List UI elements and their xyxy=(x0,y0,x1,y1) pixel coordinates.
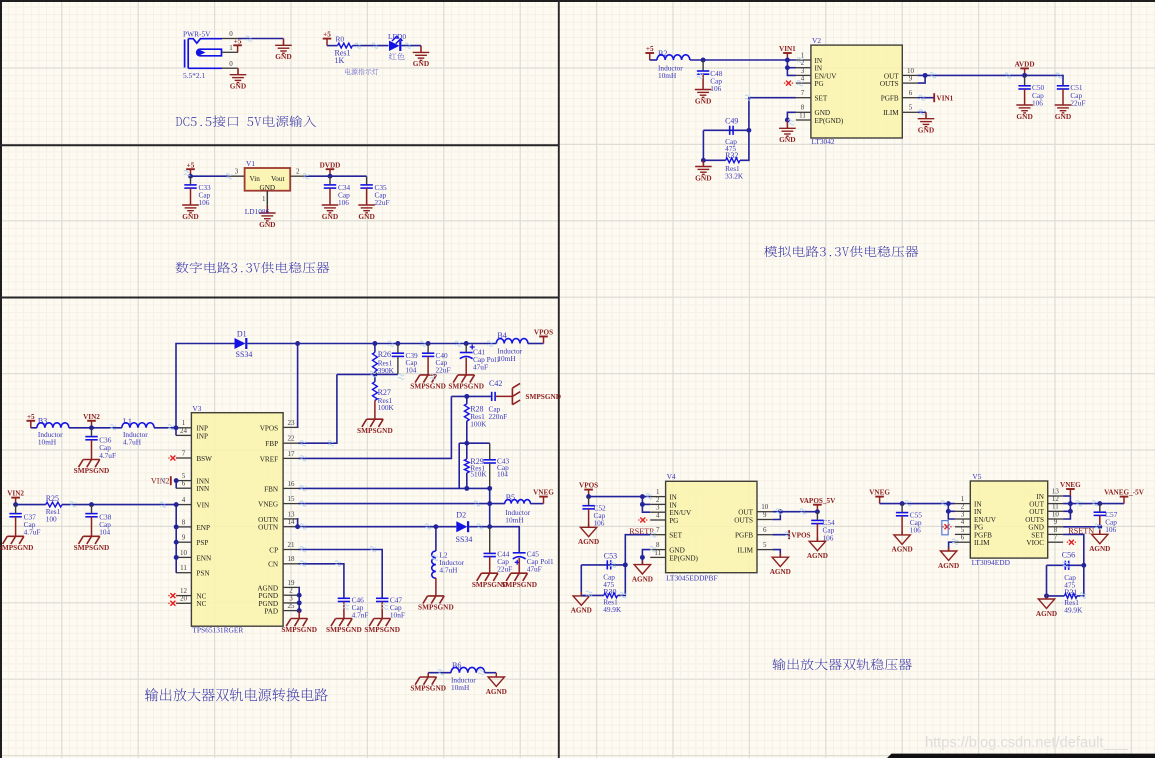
ground GND (R32) xyxy=(695,160,712,174)
svg-text:10mH: 10mH xyxy=(451,683,470,692)
junction VAPOS/C54 xyxy=(815,509,820,514)
svg-text:AGND: AGND xyxy=(770,568,791,576)
capacitor C57 xyxy=(1094,512,1106,515)
power port +5 (connector) xyxy=(233,45,242,52)
label 电源指示灯 xyxy=(345,68,378,75)
wire C53 row xyxy=(581,564,625,566)
pin 0 of PWR-5V (top) xyxy=(222,38,238,40)
junction OUTS riser xyxy=(923,73,928,78)
compile squiggle xyxy=(335,561,341,566)
svg-text:SMPSGND: SMPSGND xyxy=(326,625,362,634)
svg-text:LT3042: LT3042 xyxy=(812,137,835,146)
compile squiggle xyxy=(168,425,174,430)
compile squiggle xyxy=(303,174,309,179)
junction VIN2/C36 xyxy=(89,425,94,430)
junction V4 EP xyxy=(640,555,645,560)
capacitor C44 xyxy=(484,553,496,556)
capacitor C48 labels xyxy=(710,69,723,93)
svg-text:47uF: 47uF xyxy=(527,565,542,574)
svg-text:VIN2: VIN2 xyxy=(151,477,170,486)
svg-text:10: 10 xyxy=(180,549,188,557)
svg-text:GND: GND xyxy=(322,212,338,221)
pin 8 of V4 (GND) xyxy=(650,549,665,551)
compile squiggle xyxy=(930,73,936,78)
wire V5 pins 13-10 riser xyxy=(1063,496,1070,519)
svg-text:104: 104 xyxy=(406,366,417,375)
inductor B4 xyxy=(496,339,528,344)
compile squiggle xyxy=(398,374,404,379)
stem C45 to ground xyxy=(518,558,520,573)
compile squiggle xyxy=(70,502,76,507)
svg-text:6: 6 xyxy=(909,89,913,97)
resistor R25 labels xyxy=(46,507,61,524)
capacitor C45 xyxy=(513,553,526,559)
wire R28/C42 top rail xyxy=(451,395,491,397)
svg-text:SS34: SS34 xyxy=(236,350,253,359)
stem C40 to ground xyxy=(427,356,429,375)
svg-text:220nF: 220nF xyxy=(489,412,508,421)
junction R29 bottom xyxy=(464,486,469,491)
wire +5 to B2 xyxy=(650,59,657,61)
capacitor C52 xyxy=(582,506,594,509)
wire OUTS riser V4 xyxy=(772,512,780,520)
wire CN to C46 xyxy=(299,564,344,598)
ground AGND (C55) xyxy=(894,531,910,544)
pin 1 of V1 (GND) xyxy=(266,191,268,207)
no-connect mark NC20 xyxy=(170,601,175,606)
svg-text:47uF: 47uF xyxy=(473,363,488,372)
pin 11 of V3 (PSN) xyxy=(176,572,192,574)
svg-text:4: 4 xyxy=(182,496,186,504)
svg-text:FBN: FBN xyxy=(264,485,279,493)
power port VIN2 (VIN row) xyxy=(11,498,20,505)
junction ENP xyxy=(174,524,179,529)
pin 5 of V5 (PGFB) xyxy=(955,533,970,535)
compile squiggle xyxy=(382,604,388,609)
svg-text:AGND: AGND xyxy=(1089,545,1110,553)
svg-text:+5: +5 xyxy=(323,31,331,39)
wire to R30 xyxy=(581,594,604,596)
wire ILIM to AGND V5 xyxy=(949,542,955,551)
svg-text:EN/UV: EN/UV xyxy=(669,509,692,517)
wire INN5-INN6 riser xyxy=(175,481,177,489)
svg-text:SMPSGND: SMPSGND xyxy=(418,603,454,612)
svg-text:7: 7 xyxy=(801,89,805,97)
ground GND (LED) xyxy=(413,46,430,61)
inductor L1 labels xyxy=(123,430,148,447)
compile squiggle xyxy=(300,524,306,529)
wire INP to D1 anode xyxy=(176,344,235,428)
svg-text:C42: C42 xyxy=(489,379,502,388)
pin 1 of V3 (INP) xyxy=(176,427,192,429)
wire ILIM to AGND V4 xyxy=(772,550,780,558)
capacitor C37 labels xyxy=(24,512,41,536)
compile squiggle xyxy=(300,456,306,461)
svg-text:49.9K: 49.9K xyxy=(603,605,622,614)
ground AGND (V4 EP) xyxy=(634,561,650,574)
ground GND (C34) xyxy=(322,205,339,213)
svg-text:SMPSGND: SMPSGND xyxy=(281,625,317,634)
wire VREF riser xyxy=(299,396,452,458)
wire mid rail xyxy=(459,442,490,444)
resistor R28 xyxy=(464,404,469,421)
resistor R30 labels xyxy=(603,598,622,614)
svg-text:OUTN: OUTN xyxy=(258,524,279,532)
ground GND (C33) xyxy=(182,205,199,213)
capacitor C39 labels xyxy=(406,351,419,375)
resistor R0 xyxy=(338,43,353,48)
svg-text:VREF: VREF xyxy=(260,455,278,463)
ground AGND (V5 ILIM) xyxy=(940,547,956,560)
wire D2 to C45 xyxy=(469,527,520,553)
ground AGND (C56/R31) xyxy=(1038,595,1054,608)
svg-text:SMPSGND: SMPSGND xyxy=(501,580,537,589)
svg-text:23: 23 xyxy=(288,419,296,427)
junction C39 top xyxy=(395,341,400,346)
error box V5 PG/PGFB xyxy=(942,521,948,535)
stem C57 to ground xyxy=(1099,515,1101,534)
compile squiggle xyxy=(650,547,656,552)
wire C49 row xyxy=(703,129,749,131)
compile squiggle xyxy=(1063,562,1069,567)
pin 7 of V2 (SET) xyxy=(796,97,811,99)
wire ILIM to GND xyxy=(918,111,926,113)
svg-text:1: 1 xyxy=(656,488,660,496)
svg-text:3: 3 xyxy=(961,510,965,518)
svg-text:106: 106 xyxy=(1105,525,1116,534)
capacitor C38 xyxy=(85,514,97,517)
svg-text:GND: GND xyxy=(669,547,685,555)
svg-text:106: 106 xyxy=(338,198,349,207)
wire C56 left riser xyxy=(1046,565,1048,596)
capacitor C33 labels xyxy=(199,183,212,207)
junction SET/C49/R32 xyxy=(746,128,751,133)
power port +5 (V2 input) xyxy=(645,53,654,60)
svg-text:PSN: PSN xyxy=(196,570,210,578)
ground GND (bottom pin) xyxy=(230,68,247,82)
svg-text:V5: V5 xyxy=(972,472,981,481)
svg-text:2: 2 xyxy=(296,168,300,176)
capacitor C48 xyxy=(697,71,709,74)
svg-text:16: 16 xyxy=(288,480,296,488)
power port +5 (V1 input) xyxy=(186,169,195,176)
ground SMPSGND (V3 PGND) xyxy=(286,619,307,627)
svg-text:2: 2 xyxy=(656,496,660,504)
pin 3 of V3 (PGND) xyxy=(283,602,298,604)
svg-text:10mH: 10mH xyxy=(497,354,516,363)
pin 10 of V2 (OUT) xyxy=(902,74,917,76)
junction DVDD/C34 xyxy=(328,174,333,179)
junction V5 pin2 xyxy=(946,509,951,514)
svg-text:4.7uH: 4.7uH xyxy=(123,438,142,447)
wire to R29 top xyxy=(466,443,468,459)
stem C35 to ground xyxy=(366,188,368,205)
wire C43 column down xyxy=(489,488,491,526)
stem C41 to ground xyxy=(465,358,467,375)
svg-text:https://blog.csdn.net/default_: https://blog.csdn.net/default___ xyxy=(925,735,1129,751)
svg-text:OUTS: OUTS xyxy=(880,80,899,88)
wire SMPSGND to B6 xyxy=(428,672,451,674)
svg-text:VNEG: VNEG xyxy=(533,489,554,497)
ground GND (V2 EP) xyxy=(779,122,796,137)
inductor L2 labels xyxy=(439,551,464,575)
ground SMPSGND (C42) xyxy=(512,383,520,404)
svg-text:8: 8 xyxy=(1054,526,1058,534)
ground SMPSGND (L2) xyxy=(423,596,444,604)
ground AGND (C54) xyxy=(809,537,825,550)
svg-text:D2: D2 xyxy=(456,511,466,520)
section title DC5.5接口 5V电源输入 xyxy=(176,116,316,127)
wire rail to R26 xyxy=(374,344,376,353)
no-connect mark VIOC V5 xyxy=(1069,540,1074,545)
svg-text:104: 104 xyxy=(497,469,508,478)
svg-text:NC: NC xyxy=(196,600,206,608)
sheet border top xyxy=(0,0,1155,2)
capacitor C57 labels xyxy=(1105,510,1118,534)
capacitor C41 labels xyxy=(473,348,500,372)
stem C43 to FBN xyxy=(489,463,491,488)
svg-text:22uF: 22uF xyxy=(436,366,451,375)
svg-text:10: 10 xyxy=(1052,510,1060,518)
capacitor C55 xyxy=(896,513,908,516)
pin 21 of V3 (CP) xyxy=(283,549,298,551)
junction PAD xyxy=(297,608,302,613)
inductor B3 labels xyxy=(38,430,63,447)
svg-text:V1: V1 xyxy=(246,159,255,168)
wire V2 GND pin to ground xyxy=(787,112,796,121)
svg-text:Vin: Vin xyxy=(250,175,261,183)
svg-text:GND: GND xyxy=(260,184,276,192)
capacitor C41 xyxy=(460,353,473,359)
svg-text:AGND: AGND xyxy=(571,607,592,615)
pin 24 of V3 (INP) xyxy=(176,434,192,436)
svg-text:22uF: 22uF xyxy=(1070,98,1085,107)
ground AGND (C52) xyxy=(580,523,596,536)
svg-text:PGFB: PGFB xyxy=(974,531,992,539)
stem C36 to ground xyxy=(91,440,93,460)
svg-text:5: 5 xyxy=(909,104,913,112)
svg-text:GND: GND xyxy=(695,96,711,105)
stem C42 to SMPSGND xyxy=(496,395,513,397)
pin 9 of V4 (OUTS) xyxy=(757,519,772,521)
wire R0 to LED0 xyxy=(353,45,389,47)
svg-text:GND: GND xyxy=(779,135,795,144)
power port +5 (V3 input) xyxy=(27,421,36,428)
compile squiggle xyxy=(952,539,958,544)
resistor R31 xyxy=(1064,594,1077,599)
ground AGND (C53/R30) xyxy=(573,592,589,605)
svg-text:106: 106 xyxy=(710,84,721,93)
junction PSP xyxy=(174,540,179,545)
stem PAD to ground xyxy=(298,611,300,619)
compile squiggle xyxy=(184,171,190,176)
svg-text:VIN: VIN xyxy=(196,502,210,510)
wire SET to C49 xyxy=(749,98,796,131)
inductor B2 labels xyxy=(658,64,683,81)
svg-text:4: 4 xyxy=(801,75,805,83)
pin 10 of V3 (ENN) xyxy=(176,556,192,558)
pin 9 of V5 (GND) xyxy=(1048,526,1063,528)
capacitor C33 xyxy=(184,185,196,188)
svg-text:4.7uF: 4.7uF xyxy=(24,528,41,537)
wire Vout to DVDD rail xyxy=(306,175,367,177)
svg-text:AGND: AGND xyxy=(486,688,507,696)
compile squiggle xyxy=(425,524,431,529)
stem C44 to ground xyxy=(489,557,491,574)
pin 2 of V5 (IN) xyxy=(955,510,970,512)
compile squiggle xyxy=(300,501,306,506)
wire pin13 to VNEG port xyxy=(1063,495,1070,497)
svg-text:AGND: AGND xyxy=(807,552,828,560)
svg-text:24: 24 xyxy=(180,427,188,435)
compile squiggle xyxy=(300,486,306,491)
wire FBP node row xyxy=(337,373,398,375)
svg-text:ILIM: ILIM xyxy=(883,109,899,117)
compile squiggle xyxy=(1095,524,1101,529)
compile squiggle xyxy=(430,374,436,379)
resistor R32 xyxy=(726,158,740,163)
wire B3 to L1 xyxy=(69,427,122,429)
wire pin0 to GND xyxy=(238,38,284,40)
svg-text:GND: GND xyxy=(413,59,429,68)
svg-text:PG: PG xyxy=(815,80,824,88)
section title 模拟电路3.3V供电稳压器 xyxy=(764,246,918,257)
svg-text:CP: CP xyxy=(269,546,278,554)
capacitor C55 labels xyxy=(910,510,923,534)
compile squiggle xyxy=(226,174,232,179)
stem C37 to ground xyxy=(15,517,17,537)
junction VIN1/pin1 xyxy=(785,58,790,63)
svg-text:5.5*2.1: 5.5*2.1 xyxy=(183,71,205,80)
svg-text:VANEG_-5V: VANEG_-5V xyxy=(1104,489,1145,497)
inductor B5 labels xyxy=(505,508,530,525)
svg-text:GND: GND xyxy=(259,220,275,229)
wire FBN xyxy=(299,487,490,489)
stem R27 to ground xyxy=(374,401,376,420)
wire L1 to INP xyxy=(154,427,176,429)
svg-text:4.7nF: 4.7nF xyxy=(352,611,369,620)
regulator V1 body xyxy=(245,168,291,191)
inductor B5 xyxy=(505,500,531,504)
wire INP1-INP24 riser xyxy=(175,428,177,436)
svg-text:C56: C56 xyxy=(1062,550,1075,559)
svg-text:R0: R0 xyxy=(336,35,345,44)
svg-text:SMPSGND: SMPSGND xyxy=(364,625,400,634)
svg-text:D1: D1 xyxy=(237,329,247,338)
stem C46 to ground xyxy=(343,602,345,619)
pin 3 of V4 (EN/UV) xyxy=(650,511,665,513)
svg-text:106: 106 xyxy=(910,526,921,535)
svg-text:OUTS: OUTS xyxy=(734,516,753,524)
compile squiggle xyxy=(586,591,592,596)
inductor B6 labels xyxy=(451,676,476,693)
capacitor C43 xyxy=(484,460,496,463)
svg-text:SET: SET xyxy=(669,532,682,540)
compile squiggle xyxy=(405,43,411,48)
regulator V4 body xyxy=(666,481,757,572)
wire to R31 xyxy=(1047,595,1065,597)
junction R26 top xyxy=(372,341,377,346)
no-connect mark BSW xyxy=(170,456,175,461)
power port VIN1 xyxy=(783,53,792,60)
svg-text:BSW: BSW xyxy=(196,455,212,463)
wire V5 OUT to VANEG xyxy=(1063,503,1124,505)
svg-text:+5: +5 xyxy=(187,161,195,169)
resistor R32 labels xyxy=(725,164,744,180)
compile squiggle xyxy=(420,341,426,346)
svg-text:C49: C49 xyxy=(725,116,738,125)
svg-text:8: 8 xyxy=(182,518,186,526)
svg-text:8: 8 xyxy=(656,541,660,549)
compile squiggle xyxy=(646,494,652,499)
svg-text:VIN2: VIN2 xyxy=(83,413,100,421)
resistor R30 xyxy=(604,593,618,598)
svg-text:VAPOS_5V: VAPOS_5V xyxy=(799,497,836,505)
svg-text:FBP: FBP xyxy=(265,440,278,448)
capacitor C39 xyxy=(392,353,404,356)
capacitor C40 xyxy=(422,353,434,356)
capacitor C54 xyxy=(811,520,823,523)
pin 5 of V2 (ILIM) xyxy=(902,111,917,113)
compile squiggle xyxy=(160,502,166,507)
pin 2 of V1 (Vout) xyxy=(290,175,305,177)
capacitor C52 labels xyxy=(594,503,607,527)
capacitor C38 labels xyxy=(99,512,112,536)
pin 19 of V3 (AGND) xyxy=(283,586,298,588)
resistor R0 value labels xyxy=(335,49,351,66)
wire VPOS to V4 IN xyxy=(589,496,651,498)
wire C56 row xyxy=(1047,564,1084,566)
svg-text:AGND: AGND xyxy=(257,584,278,592)
svg-text:0: 0 xyxy=(229,30,233,38)
junction SET/C56/R31 xyxy=(1081,563,1086,568)
svg-text:390K: 390K xyxy=(378,366,395,375)
svg-text:AGND: AGND xyxy=(1036,610,1057,618)
compile squiggle xyxy=(300,561,306,566)
pin 4 of V5 (PG) xyxy=(955,526,970,528)
sheet divider horizontal 2 xyxy=(0,297,559,299)
resistor R31 labels xyxy=(1064,598,1083,614)
junction VPOS riser top xyxy=(295,341,300,346)
inductor L2 xyxy=(432,551,436,578)
svg-text:13: 13 xyxy=(288,510,296,518)
svg-text:100K: 100K xyxy=(470,420,487,429)
pin 4 of V4 (PG) xyxy=(650,519,665,521)
compile squiggle xyxy=(370,547,376,552)
ground SMPSGND (R27) xyxy=(362,419,383,427)
svg-text:VPOS: VPOS xyxy=(534,329,553,337)
stem C50 to ground xyxy=(1024,89,1026,105)
svg-text:GND: GND xyxy=(918,126,934,135)
svg-text:3: 3 xyxy=(235,168,239,176)
svg-text:EP(GND): EP(GND) xyxy=(815,117,844,125)
wire riser to pin2 V5 xyxy=(948,510,955,512)
stem C47 to ground xyxy=(381,602,383,619)
svg-text:19: 19 xyxy=(288,579,296,587)
wire CP to C47 xyxy=(299,550,383,598)
diode D2 xyxy=(456,521,467,532)
ground GND (V1) xyxy=(259,207,276,221)
wire VIN1 riser pins 1-3 xyxy=(787,60,796,75)
resistor R29 labels xyxy=(470,463,487,478)
svg-text:6: 6 xyxy=(763,526,767,534)
svg-text:PSP: PSP xyxy=(196,539,208,547)
compile squiggle xyxy=(300,441,306,446)
svg-text:AGND: AGND xyxy=(632,575,653,583)
pin 1 of PWR-5V (middle) xyxy=(222,51,238,53)
capacitor C54 labels xyxy=(823,518,836,542)
junction C40 top xyxy=(426,341,431,346)
